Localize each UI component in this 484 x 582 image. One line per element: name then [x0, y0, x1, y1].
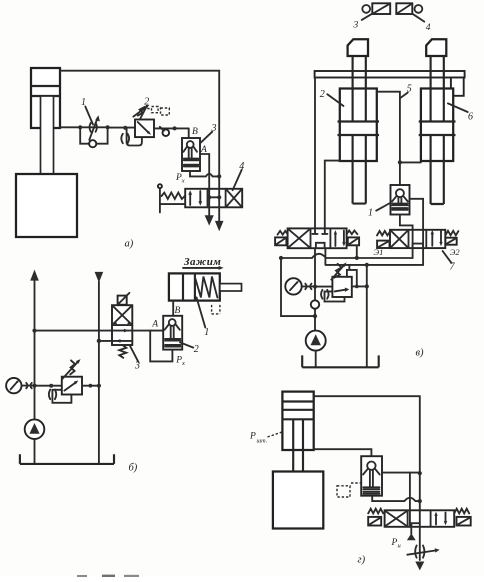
node rail left [279, 256, 283, 260]
node bar right [217, 195, 221, 199]
tank drop wire (v) [366, 265, 368, 367]
rail left leg to pump line [281, 258, 315, 316]
gauge damper arcs [26, 383, 32, 388]
gauge (v) [285, 278, 301, 294]
relief output wire (b) [82, 385, 99, 387]
valve 4 spring [162, 193, 186, 199]
piston rod (a) [41, 96, 54, 174]
spring of relief (v) [334, 264, 341, 278]
label 4 (v) with leader [413, 14, 425, 22]
pilot check valve 2 body (b) [163, 316, 182, 350]
pilot check valve 3 body [182, 138, 200, 171]
valve 4 middle pass lines [209, 189, 219, 208]
svg-text:В: В [192, 127, 198, 137]
cylinder 2 rod upper [353, 56, 366, 122]
valve P2 right spring [445, 231, 458, 236]
node on line 5 [398, 160, 402, 164]
wire port B cylinder to check valve (b) [172, 301, 174, 316]
pressure source port Pn [410, 527, 412, 534]
adjust arrow of 1 [89, 118, 97, 140]
valve P1 center blocked ports [312, 228, 327, 234]
inline check valve after 2 [163, 129, 170, 136]
valve P2 right solenoid [445, 238, 456, 245]
valve 3 crossed arrows [113, 306, 131, 324]
drain dashes under cylinder (b) [212, 305, 220, 314]
adjust arrow of relief (v) [331, 265, 344, 279]
node at throttle left [78, 125, 82, 129]
piston (a) [31, 86, 60, 96]
throttle arcs (g) [415, 546, 424, 558]
limit switch 3 roller [362, 5, 370, 13]
node on output wire [173, 126, 177, 130]
adjust arrow of relief (b) [63, 362, 78, 379]
svg-text:шт.: шт. [257, 438, 268, 445]
spring of valve 2 [138, 107, 145, 116]
piston of cylinder (b) [183, 273, 195, 300]
valve P2 left solenoid [377, 241, 389, 248]
valve P2 body [390, 230, 445, 248]
cylinder 2 body (v) [340, 89, 377, 162]
exhaust triangle under valve 4 [208, 207, 210, 215]
pilot dashed box 1 of valve 2 [152, 107, 159, 113]
node return branch [97, 339, 101, 343]
arrow inside relief (b) [64, 383, 75, 391]
wire A-line of check 1 through valve P2 [410, 199, 424, 265]
node before relief [49, 384, 53, 388]
branch wire A to valve top (g) [409, 473, 411, 511]
pilot dashed box 2 of valve 2 [161, 108, 170, 115]
pump bottom wire (v) [315, 351, 317, 368]
svg-text:н: н [398, 543, 401, 550]
ball of check 1 (v) [396, 189, 404, 197]
relief drain pocket (v) [325, 292, 345, 302]
leader for label 1 [85, 107, 93, 125]
relief output wire (v) [352, 285, 367, 287]
exhaust arrow down (g) [415, 562, 424, 571]
branch to cylinder 6 lower [400, 161, 421, 163]
piston bars of valve 2 (b) [165, 339, 180, 347]
svg-text:г): г) [358, 555, 366, 566]
pilot dashed link of valve 2 [147, 108, 151, 110]
valve P2 left spring [377, 231, 390, 235]
valve 4 roller lever [160, 188, 185, 212]
svg-text:2: 2 [194, 344, 199, 355]
load block (a) [16, 174, 77, 237]
wire solenoid drop to rail [356, 245, 358, 257]
cylinder 2 rod lower [353, 135, 366, 204]
wire frame left down to valve P1 [314, 78, 316, 229]
gauge link (v) [302, 285, 315, 287]
valve P2 arrows section [431, 233, 433, 245]
node A-line at supply [32, 329, 36, 333]
piston bars of check 1 (v) [392, 204, 407, 210]
pump line vertical [314, 248, 316, 330]
valve P1 crossed section [288, 229, 309, 247]
relief pilot loop (v) [347, 265, 357, 287]
seat (g) [363, 469, 380, 475]
throttle arcs of 1 [90, 123, 97, 132]
valve P1 body [288, 228, 347, 248]
svg-text:Э1: Э1 [374, 247, 384, 257]
node loop output [355, 285, 359, 289]
wire supply to relief valve (b) [35, 385, 62, 387]
right spring (g) [454, 509, 469, 514]
seat of valve 2 (b) [165, 325, 180, 330]
stem of check 1 (v) [398, 197, 401, 203]
flow arrow down under valve 4 [218, 207, 220, 222]
exhaust wire with throttle (g) [419, 527, 421, 560]
node rail2 tank drop [365, 263, 369, 267]
seat of valve 3 [183, 146, 197, 151]
spring inside cylinder (b) [195, 277, 218, 298]
return down arrow [95, 272, 104, 283]
cylinder 6 piston [419, 122, 456, 136]
cropped caption fragment left [77, 575, 87, 577]
ball (g) [367, 462, 375, 470]
bypass loop of throttle 1 [80, 127, 107, 143]
node at throttle right [106, 125, 110, 129]
wire cylinder 2 top port to center line 5 [377, 92, 400, 185]
svg-text:А: А [151, 320, 158, 330]
directional valve 4 body [185, 189, 242, 208]
cylinder 6 body (v) [421, 89, 453, 162]
valve 4 dividers [208, 189, 226, 208]
supply up arrow [30, 270, 39, 281]
arrows section (g) [435, 515, 437, 524]
clamp head right [426, 39, 446, 56]
gauge link wire [22, 385, 35, 387]
svg-text:х: х [181, 360, 185, 367]
arrow Zazhim [183, 267, 219, 269]
pressure rail with hop [281, 248, 413, 258]
tank line (v) [302, 355, 379, 367]
svg-text:Р: Р [249, 432, 256, 442]
node rail pump junction [313, 314, 317, 318]
cylinder 6 rod upper [431, 56, 444, 122]
relief drain arcs (b) [49, 390, 56, 400]
svg-text:б): б) [129, 463, 138, 474]
spring under valve 3 [119, 345, 126, 358]
arrow right on A-line in valve [124, 329, 129, 333]
node gauge line [32, 384, 36, 388]
pump outlet wire down [34, 439, 36, 464]
throttle with check valve 1 : main line [80, 126, 107, 128]
node before reducing valve [123, 126, 127, 130]
ball of valve 2 (b) [169, 319, 176, 326]
clamp head left [348, 39, 368, 56]
tank line (b) [20, 454, 114, 464]
pilot wire Px with hop (g) [372, 496, 420, 501]
node Px junction (g) [418, 499, 422, 503]
limit switch 4 box [396, 3, 412, 14]
svg-text:3: 3 [353, 21, 359, 31]
node rail solenoid drop [355, 256, 359, 260]
pilot wire Px of check 1 [400, 215, 413, 230]
svg-text:6: 6 [468, 112, 473, 123]
seat line of inline check [160, 127, 164, 131]
wire pump line to relief (v) [315, 286, 332, 288]
svg-text:В: В [175, 306, 181, 316]
valve P1 arrows section [334, 234, 336, 246]
middle lines (g) [410, 510, 420, 527]
node relief output [89, 384, 93, 388]
svg-text:в): в) [416, 348, 425, 359]
wire cylinder top to main vertical [60, 71, 219, 189]
arrow left on return branch in valve [115, 339, 120, 343]
relief valve body (v) [332, 277, 351, 297]
relief drain arcs (v) [321, 290, 329, 299]
limit switch 3 box [372, 3, 390, 14]
wire cylinder 2 bottom port to valve P1 [325, 161, 340, 229]
piston bars of valve 3 [184, 159, 199, 167]
node return at branch [97, 339, 101, 343]
end plate right [451, 78, 464, 96]
cylinder 2 piston [338, 122, 380, 136]
supply vertical wire [34, 280, 36, 420]
cropped caption fragment right [102, 575, 115, 577]
valve P2 middle U [413, 244, 424, 249]
arrow inside relief (v) [335, 290, 346, 292]
beam [315, 71, 465, 78]
svg-text:1: 1 [368, 208, 373, 219]
wire cylinder top to main vertical (g) [314, 396, 420, 510]
cap line (g) [282, 400, 313, 402]
ball of valve 3 [187, 141, 194, 148]
arrow inside valve 2 [138, 122, 149, 133]
wire port A of 3 to valve 4 [200, 154, 209, 189]
relief valve body (b) [62, 377, 82, 395]
valve 4 up arrow [189, 194, 191, 205]
svg-text:Зажим: Зажим [183, 256, 221, 268]
solenoid dashed box (g) [337, 486, 350, 497]
piston bars (g) [363, 487, 379, 494]
svg-text:х: х [181, 178, 185, 185]
wire A port to main vertical (g) [382, 472, 420, 474]
relief drain pocket (b) [52, 390, 71, 403]
return vertical wire [98, 282, 100, 464]
node bar left [207, 195, 211, 199]
valve 4 crossed section [226, 189, 241, 206]
stem of valve 3 [189, 148, 192, 158]
piston (g) [282, 410, 313, 420]
directional valve body (g) [385, 510, 455, 527]
middle U (g) [411, 523, 419, 527]
left solenoid (g) [368, 517, 381, 526]
load block (g) [273, 472, 323, 529]
cylinder 6 rod lower [431, 135, 444, 204]
drain pocket of valve 2 [127, 128, 142, 145]
pilot check valve body (g) [361, 456, 382, 496]
stem (g) [370, 470, 373, 487]
valve 3 divider [112, 324, 132, 326]
spring of relief (b) [70, 360, 75, 374]
adjust arrow of valve 2 [133, 107, 147, 117]
left spring (g) [368, 509, 383, 514]
svg-text:Э2: Э2 [450, 247, 461, 257]
clamp cylinder 1 (b) [169, 273, 220, 300]
drain arcs of valve 2 [121, 134, 129, 143]
valve 4 down arrow [199, 191, 201, 202]
valve P1 left solenoid [275, 237, 286, 245]
reducing valve 2 body [135, 120, 154, 138]
piston rod (g) [293, 419, 303, 471]
valve P2 crossed section [391, 231, 408, 248]
valve 3 body (b) [112, 305, 132, 345]
node output tank drop [365, 284, 369, 288]
valve P1 center U [316, 243, 325, 248]
label 3 (v) with leader [362, 14, 372, 20]
cylinder body (a) [31, 68, 60, 128]
pilot check valve 1 (v) body [391, 185, 410, 215]
wire cylinder bottom port to check valve (g) [314, 449, 372, 456]
seat of check 1 (v) [392, 196, 408, 201]
svg-text:2: 2 [320, 89, 325, 100]
wire return branch to valve 3 [99, 340, 132, 342]
valve P1 right solenoid [348, 237, 359, 245]
piston rod (b) [220, 284, 242, 291]
wire A-line from supply to check valve A [35, 330, 164, 332]
limit switch 4 roller [415, 5, 423, 13]
valve P1 left spring [278, 231, 288, 235]
right solenoid (g) [457, 517, 471, 526]
return rail 2 [325, 248, 423, 265]
solenoid on valve 3 [118, 296, 127, 305]
check valve on pump line [311, 300, 319, 308]
valve P2 middle lines [413, 230, 424, 248]
wire valve 2 output to check ball [154, 127, 189, 129]
valve 4 middle bar [209, 196, 219, 198]
svg-text:4: 4 [426, 23, 431, 33]
node A junction (g) [418, 471, 422, 475]
svg-text:Р: Р [391, 538, 398, 548]
wire cylinder bottom to throttle 1 [60, 126, 80, 128]
svg-text:1: 1 [204, 327, 209, 338]
throttle adjust arrow (g) [407, 551, 435, 555]
svg-text:а): а) [125, 239, 134, 250]
pilot wire Px of 3 with hop [190, 171, 219, 176]
gauge (b) [6, 378, 21, 393]
cylinder body (g) [282, 392, 313, 450]
pump (v) [306, 331, 326, 351]
node Px to main line [217, 174, 221, 178]
stem of valve 2 (b) [171, 326, 174, 338]
pump (b) [25, 419, 45, 439]
check ball circle of 1 [89, 140, 96, 147]
wire down to port B of valve 3 [188, 128, 190, 138]
wire throttle 1 to reducing valve 2 [108, 127, 135, 129]
crossed section (g) [385, 511, 406, 526]
node gauge junction (v) [313, 285, 317, 289]
pilot wire Px (b) [150, 331, 172, 362]
node return at relief [97, 384, 101, 388]
valve P1 right spring [347, 231, 358, 235]
